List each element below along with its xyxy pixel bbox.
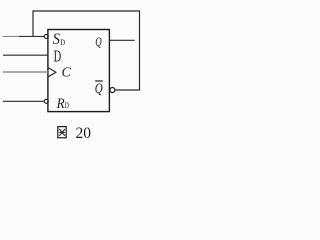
wire feedback right vertical — [139, 10, 141, 90]
wire input RD — [3, 100, 44, 102]
wire output Q stub — [109, 39, 134, 41]
svg-text:20: 20 — [76, 125, 92, 142]
svg-text:R: R — [56, 96, 65, 112]
wire feedback bottom horizontal to Q-bar bubble — [115, 89, 140, 91]
wire input SD — [3, 35, 21, 37]
svg-text:D: D — [65, 100, 69, 110]
wire input D — [3, 54, 48, 56]
overline of Q-bar — [95, 80, 103, 82]
svg-text:D: D — [60, 37, 65, 47]
wire input C — [3, 71, 48, 73]
svg-text:Q: Q — [95, 81, 103, 97]
wire feedback left vertical — [32, 10, 34, 36]
caption glyph for Chinese character tu (figure) — [58, 127, 66, 138]
svg-text:C: C — [62, 66, 72, 81]
flip-flop U1 body — [48, 30, 110, 112]
inversion bubble on RD input — [44, 99, 48, 103]
svg-text:S: S — [53, 31, 60, 48]
svg-text:Q: Q — [95, 35, 101, 49]
dynamic clock input edge triangle — [48, 68, 56, 78]
wire feedback top horizontal — [33, 10, 140, 12]
inversion bubble on Q-bar output — [110, 88, 115, 93]
svg-text:D: D — [54, 46, 62, 65]
inversion bubble on SD input — [44, 34, 48, 38]
